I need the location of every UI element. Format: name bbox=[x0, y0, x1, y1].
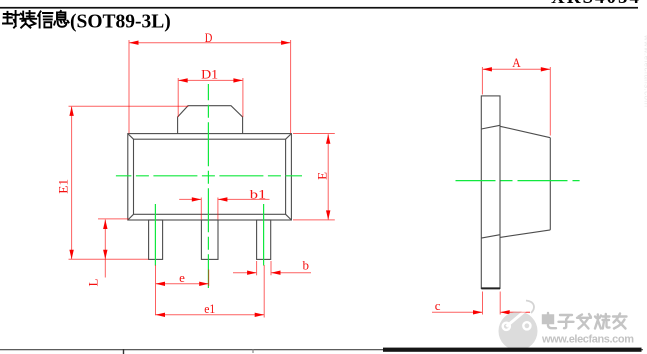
bevel diagonals bbox=[128, 134, 292, 220]
电子发烧友 strokes bbox=[543, 313, 627, 329]
side view lead/tab plate bbox=[481, 96, 500, 289]
svg-text:e: e bbox=[179, 270, 185, 285]
title: 封装信息 (drawn strokes) bbox=[3, 11, 69, 28]
svg-text:www.elecfans.com: www.elecfans.com bbox=[643, 34, 647, 107]
dimension L bbox=[98, 219, 129, 278]
svg-text:c: c bbox=[435, 298, 441, 313]
信 bbox=[38, 11, 52, 27]
svg-text:D: D bbox=[205, 30, 213, 45]
horizontal centerline side view bbox=[456, 180, 580, 182]
package body outer outline bbox=[128, 134, 292, 220]
svg-text:A: A bbox=[512, 55, 521, 70]
svg-text:E1: E1 bbox=[55, 179, 70, 194]
息 bbox=[54, 11, 68, 27]
lead 2 (center) bbox=[201, 220, 218, 259]
svg-text:www.elecfans.com: www.elecfans.com bbox=[541, 334, 634, 346]
dimension c bbox=[432, 292, 530, 315]
svg-text:L: L bbox=[85, 278, 100, 286]
package body inner bevel outline bbox=[134, 139, 286, 214]
封 bbox=[3, 11, 19, 28]
heatsink tab outline bbox=[178, 106, 243, 134]
svg-text:D1: D1 bbox=[201, 67, 218, 82]
dimension b1 bbox=[179, 198, 269, 220]
centerline lead 1 bbox=[154, 204, 156, 266]
dimension E1 bbox=[69, 106, 189, 259]
dimension E bbox=[293, 134, 335, 220]
dimension e1 bbox=[156, 265, 265, 318]
dimension D1 bbox=[178, 78, 243, 117]
lead 1 (left) bbox=[149, 220, 163, 259]
side view plate bottom edge bbox=[481, 287, 500, 289]
svg-text:e1: e1 bbox=[204, 301, 215, 316]
svg-text:b1: b1 bbox=[250, 187, 267, 202]
dimension D bbox=[129, 40, 291, 133]
header rule bbox=[0, 7, 638, 9]
dimension A bbox=[482, 67, 550, 136]
svg-text:E: E bbox=[315, 172, 330, 180]
lead 3 (right) bbox=[257, 220, 271, 259]
svg-text:b: b bbox=[302, 257, 309, 272]
side view molded body profile bbox=[481, 125, 550, 238]
svg-text:XRS4054: XRS4054 bbox=[551, 0, 641, 8]
centerline lead 3 bbox=[263, 204, 265, 266]
vertical centerline front view bbox=[207, 84, 209, 288]
装 bbox=[20, 11, 36, 28]
horizontal centerline front view bbox=[116, 175, 302, 177]
dimension e bbox=[156, 265, 209, 315]
dimension b bbox=[233, 261, 311, 275]
svg-text:(SOT89-3L): (SOT89-3L) bbox=[70, 12, 171, 33]
